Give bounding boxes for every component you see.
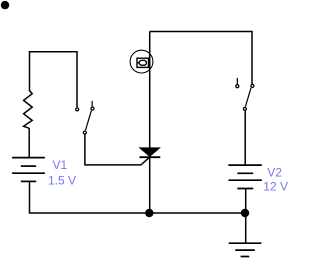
- wire (SW2 bottom to V2 top): [244, 111, 246, 165]
- switch SW1 lever: [86, 110, 92, 130]
- lamp L1 filament left lead: [137, 62, 139, 64]
- wire (SCR cathode to bottom rail): [149, 157, 151, 213]
- wire (top rail, middle branch to right branch): [150, 32, 252, 85]
- junction dot (SCR / bottom rail): [145, 209, 153, 217]
- lamp L1 (indicator) outer circle: [130, 50, 153, 73]
- lamp L1 inner box: [137, 58, 149, 67]
- switch SW1 contact circle (left pole, fed from top): [76, 108, 79, 111]
- switch SW1 open-contact stub: [91, 101, 93, 107]
- battery V1: [12, 158, 45, 182]
- wire (V2 bottom through junction to ground): [245, 189, 247, 244]
- wire (R1 bottom to V1 top): [28, 128, 30, 157]
- node dot (free junction marker, top left): [1, 1, 9, 9]
- svg-text:V1: V1: [53, 158, 68, 172]
- switch SW2 bottom pole circle: [243, 107, 246, 110]
- battery V2: [228, 165, 261, 188]
- thyristor Q1 anode triangle: [140, 148, 160, 157]
- resistor R1: [24, 90, 33, 128]
- svg-text:1.5 V: 1.5 V: [48, 174, 76, 188]
- wire (top-left loop: V1 top to SW1 top): [30, 52, 78, 108]
- switch SW2 right contact circle (fed from top): [251, 84, 254, 87]
- svg-text:V2: V2: [267, 166, 282, 180]
- wire (SW1 bottom to SCR gate): [85, 134, 150, 165]
- ground symbol: [229, 243, 262, 256]
- wire (V1 bottom to bottom rail): [30, 181, 246, 213]
- switch SW1 right contact circle: [91, 107, 94, 110]
- switch SW2 left contact circle: [236, 85, 239, 88]
- switch SW2 open-contact stub: [236, 78, 238, 84]
- wire (middle branch vertical through lamp to SCR): [149, 32, 151, 149]
- svg-text:12 V: 12 V: [263, 180, 288, 194]
- thyristor Q1 cathode bar: [140, 156, 161, 158]
- junction dot (V2 / bottom rail): [241, 209, 249, 217]
- switch SW1 bottom pole circle: [83, 131, 86, 134]
- lamp L1 inner filament ellipse: [139, 60, 146, 65]
- switch SW2 lever (closed): [245, 88, 251, 107]
